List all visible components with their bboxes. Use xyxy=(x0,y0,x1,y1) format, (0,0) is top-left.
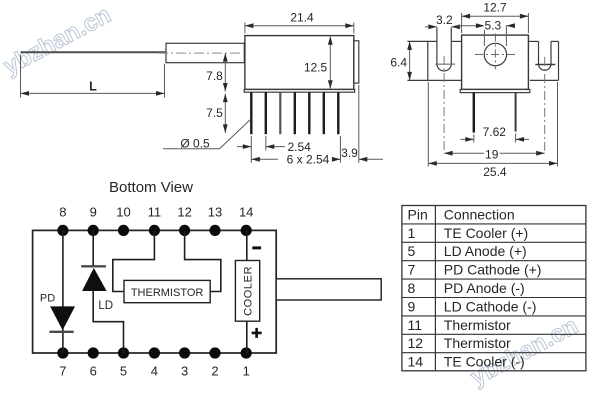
svg-text:LD Cathode (-): LD Cathode (-) xyxy=(444,298,537,314)
pin dot 6 xyxy=(88,347,99,358)
svg-text:12: 12 xyxy=(177,205,191,220)
svg-text:5: 5 xyxy=(120,364,127,379)
dimension 2.54 xyxy=(237,136,311,163)
svg-text:Thermistor: Thermistor xyxy=(444,335,511,351)
svg-text:9: 9 xyxy=(408,298,416,314)
svg-text:6 x 2.54: 6 x 2.54 xyxy=(287,152,330,166)
svg-text:12.5: 12.5 xyxy=(304,61,328,75)
svg-text:8: 8 xyxy=(59,205,66,220)
svg-text:7: 7 xyxy=(408,262,416,278)
svg-text:7.5: 7.5 xyxy=(206,106,223,120)
pin 4 (side) xyxy=(294,92,296,134)
svg-text:3.2: 3.2 xyxy=(436,13,453,27)
flange bottom edge xyxy=(407,79,461,81)
photodiode PD triangle xyxy=(50,306,75,330)
svg-text:5: 5 xyxy=(408,243,416,259)
mounting tab (side) xyxy=(354,41,359,83)
dimension 7.8 xyxy=(206,53,228,91)
flange left edge xyxy=(427,41,429,80)
svg-text:LD: LD xyxy=(98,300,113,312)
pin dot 8 xyxy=(57,225,68,236)
laser diode LD cathode bar xyxy=(81,265,106,267)
table column divider xyxy=(434,206,436,371)
svg-text:5.3: 5.3 xyxy=(485,19,502,33)
pin left (front) xyxy=(473,93,475,133)
pin dot 11 xyxy=(149,225,160,236)
svg-text:11: 11 xyxy=(408,317,423,333)
svg-text:8: 8 xyxy=(408,280,416,296)
label diameter 0.5 with leader xyxy=(163,119,251,151)
dimension 12.5 xyxy=(304,36,333,88)
svg-text:Pin: Pin xyxy=(408,206,428,222)
thermistor box xyxy=(124,280,210,302)
pin dot 2 xyxy=(209,347,220,358)
dimension 12.7 xyxy=(462,1,529,34)
svg-text:13: 13 xyxy=(208,205,222,220)
svg-text:14: 14 xyxy=(239,205,253,220)
dimension 3.9 xyxy=(341,85,383,163)
pin dot 14 xyxy=(241,225,252,236)
package body (front) xyxy=(462,35,529,89)
svg-text:7.62: 7.62 xyxy=(483,125,507,139)
svg-text:12: 12 xyxy=(408,335,424,351)
laser diode LD triangle xyxy=(82,268,107,291)
pin dot 5 xyxy=(118,347,129,358)
laser diode LD wire top xyxy=(92,230,94,266)
baseplate (front) xyxy=(460,89,530,92)
svg-text:3: 3 xyxy=(181,364,188,379)
fiber stub xyxy=(276,279,381,300)
svg-text:4: 4 xyxy=(151,364,158,379)
svg-text:6: 6 xyxy=(90,364,97,379)
svg-text:7.8: 7.8 xyxy=(206,69,223,83)
svg-text:7: 7 xyxy=(59,364,66,379)
dimension L xyxy=(21,55,165,98)
cooler box xyxy=(235,261,259,322)
svg-text:THERMISTOR: THERMISTOR xyxy=(131,287,204,299)
thermistor wire right (pin 12) xyxy=(185,230,221,291)
pin dot 9 xyxy=(88,225,99,236)
svg-text:1: 1 xyxy=(243,364,250,379)
pin dot 12 xyxy=(179,225,190,236)
table frame xyxy=(402,206,586,371)
plus sign xyxy=(252,328,262,338)
pin dot 3 xyxy=(179,347,190,358)
flange top edge segments xyxy=(407,40,437,42)
svg-text:12.7: 12.7 xyxy=(483,1,507,15)
pin 5 (side) xyxy=(308,92,310,134)
package outline box xyxy=(33,230,277,353)
pin dot 13 xyxy=(209,225,220,236)
table header xyxy=(408,206,515,222)
package body (side) xyxy=(245,36,354,90)
pin 3 (side) xyxy=(279,92,281,134)
pin 7 (side) xyxy=(337,92,339,134)
dimension 25.4 xyxy=(428,82,557,179)
left slot xyxy=(436,28,456,151)
dimension 6 x 2.54 xyxy=(251,136,340,166)
pin dot 7 xyxy=(57,347,68,358)
svg-text:10: 10 xyxy=(116,205,130,220)
pin 1 (side) xyxy=(250,92,252,134)
svg-text:Thermistor: Thermistor xyxy=(444,317,511,333)
svg-text:PD Cathode (+): PD Cathode (+) xyxy=(444,262,542,278)
svg-text:6.4: 6.4 xyxy=(390,55,407,69)
svg-text:TE Cooler (+): TE Cooler (+) xyxy=(444,225,528,241)
svg-text:25.4: 25.4 xyxy=(483,165,507,179)
dimension 21.4 xyxy=(245,11,354,34)
circle crosshair vertical xyxy=(494,34,496,70)
baseplate (side) xyxy=(244,89,354,92)
fiber pigtail xyxy=(21,51,167,53)
pin dot 10 xyxy=(118,225,129,236)
photodiode PD cathode bar xyxy=(49,331,73,333)
circle crosshair horizontal xyxy=(475,54,516,56)
cooler wire bottom (pin 1) xyxy=(246,321,248,353)
svg-text:11: 11 xyxy=(148,205,162,220)
table rows xyxy=(408,225,542,370)
svg-text:PD: PD xyxy=(40,293,55,305)
pin 2 (side) xyxy=(265,92,267,134)
right slot xyxy=(535,41,555,150)
svg-text:2: 2 xyxy=(211,364,218,379)
svg-text:14: 14 xyxy=(408,354,424,370)
flange right edge xyxy=(558,41,560,80)
photodiode PD wire xyxy=(62,230,64,353)
svg-text:1: 1 xyxy=(408,225,416,241)
fiber bore circle xyxy=(484,43,506,65)
pin dot 4 xyxy=(149,347,160,358)
dimension 6.4 xyxy=(390,41,412,80)
pin right (front) xyxy=(515,93,517,132)
svg-text:9: 9 xyxy=(90,205,97,220)
svg-text:PD Anode (-): PD Anode (-) xyxy=(444,280,525,296)
svg-text:LD Anode (+): LD Anode (+) xyxy=(444,243,527,259)
svg-text:19: 19 xyxy=(485,147,499,161)
svg-text:21.4: 21.4 xyxy=(290,11,314,25)
svg-text:TE Cooler (-): TE Cooler (-) xyxy=(444,354,525,370)
pin dot 1 xyxy=(241,347,252,358)
svg-text:L: L xyxy=(89,80,97,94)
ferrule xyxy=(166,43,244,62)
dimension 7.5 xyxy=(206,94,228,133)
svg-text:Bottom View: Bottom View xyxy=(109,179,193,196)
laser diode LD wire bottom xyxy=(93,291,123,353)
table row lines xyxy=(402,224,586,353)
svg-text:3.9: 3.9 xyxy=(341,146,358,160)
dimension 3.2 xyxy=(425,13,461,29)
thermistor wire left (pin 11) xyxy=(113,230,155,291)
dimension 7.62 xyxy=(461,125,530,143)
svg-text:COOLER: COOLER xyxy=(243,266,255,316)
cooler wire top (pin 14) xyxy=(246,230,248,260)
pin 6 (side) xyxy=(323,92,325,134)
minus sign xyxy=(252,246,261,249)
optical centerline xyxy=(158,52,258,54)
dimension 5.3 xyxy=(456,19,515,46)
svg-text:Connection: Connection xyxy=(444,206,515,222)
dimension 19 xyxy=(444,147,545,161)
